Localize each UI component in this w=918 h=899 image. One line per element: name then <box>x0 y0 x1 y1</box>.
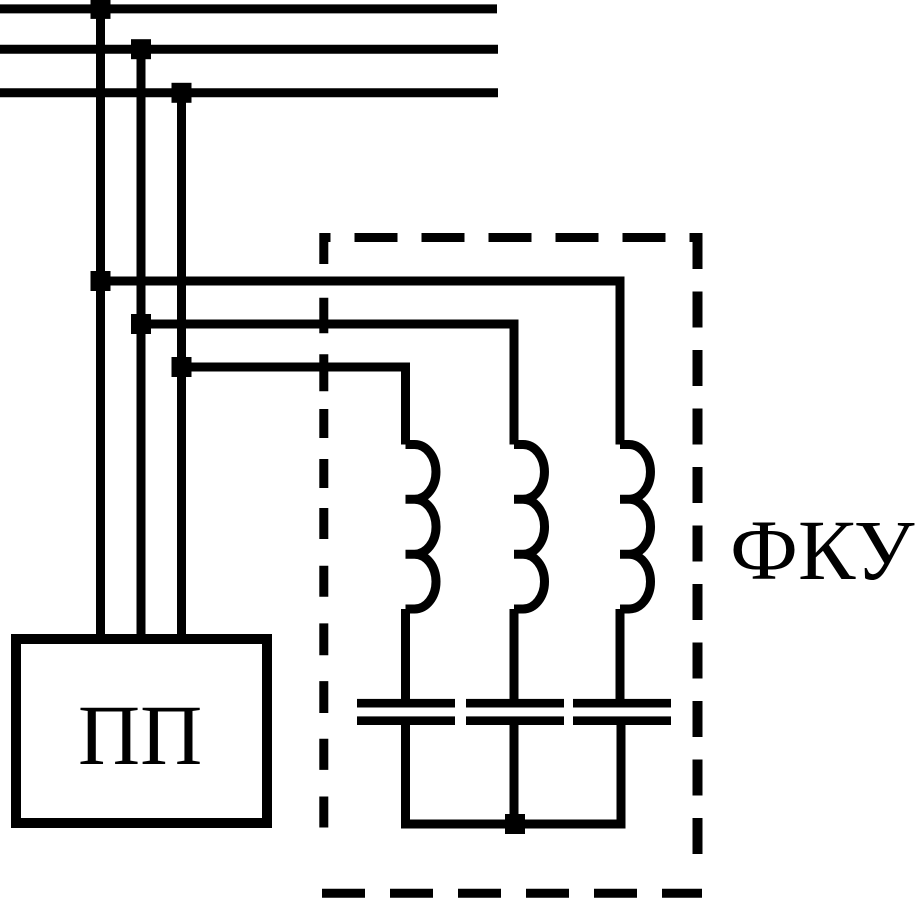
junction on L2 <box>131 39 151 59</box>
dashed box FKU left edge <box>319 233 328 828</box>
inductor 1 <box>406 445 437 610</box>
dashed box FKU bottom edge <box>322 889 702 898</box>
junction wire B on drop 2 <box>131 314 151 334</box>
bus line L1 <box>0 4 497 13</box>
wire drop 3 from L3 to PP box <box>177 93 186 640</box>
dashed box FKU top edge <box>320 233 703 242</box>
dashed box FKU right edge <box>693 233 703 875</box>
box PP <box>16 639 267 823</box>
wire capacitor2 to bottom bus <box>510 725 519 824</box>
capacitor C3 <box>573 699 671 725</box>
inductor 3 <box>620 445 651 610</box>
wire C: drop3 to inductor L1 column <box>182 367 406 445</box>
bus line L3 <box>0 88 498 97</box>
capacitor C2 <box>466 699 564 725</box>
svg-text:ФКУ: ФКУ <box>730 502 915 598</box>
wire drop 1 from L1 to PP box <box>96 9 105 640</box>
svg-text:ПП: ПП <box>78 687 202 783</box>
junction on L1 <box>91 0 111 19</box>
junction wire A on drop 1 <box>91 271 111 291</box>
inductor 2 <box>514 445 545 610</box>
capacitor C1 <box>357 699 455 725</box>
wire B: drop2 to inductor L2 column <box>141 324 514 445</box>
junction bottom bus <box>505 814 525 834</box>
wire drop 2 from L2 to PP box <box>137 49 146 640</box>
wire inductor3 to capacitor3 <box>616 609 625 700</box>
wire inductor1 to capacitor1 <box>401 609 410 700</box>
bus line L2 <box>0 45 498 54</box>
wire A: drop1 to inductor L3 column <box>101 281 621 445</box>
junction on L3 <box>172 83 192 103</box>
wire capacitors to bottom bus <box>406 725 622 824</box>
wire inductor2 to capacitor2 <box>510 609 519 700</box>
junction wire C on drop 3 <box>172 357 192 377</box>
